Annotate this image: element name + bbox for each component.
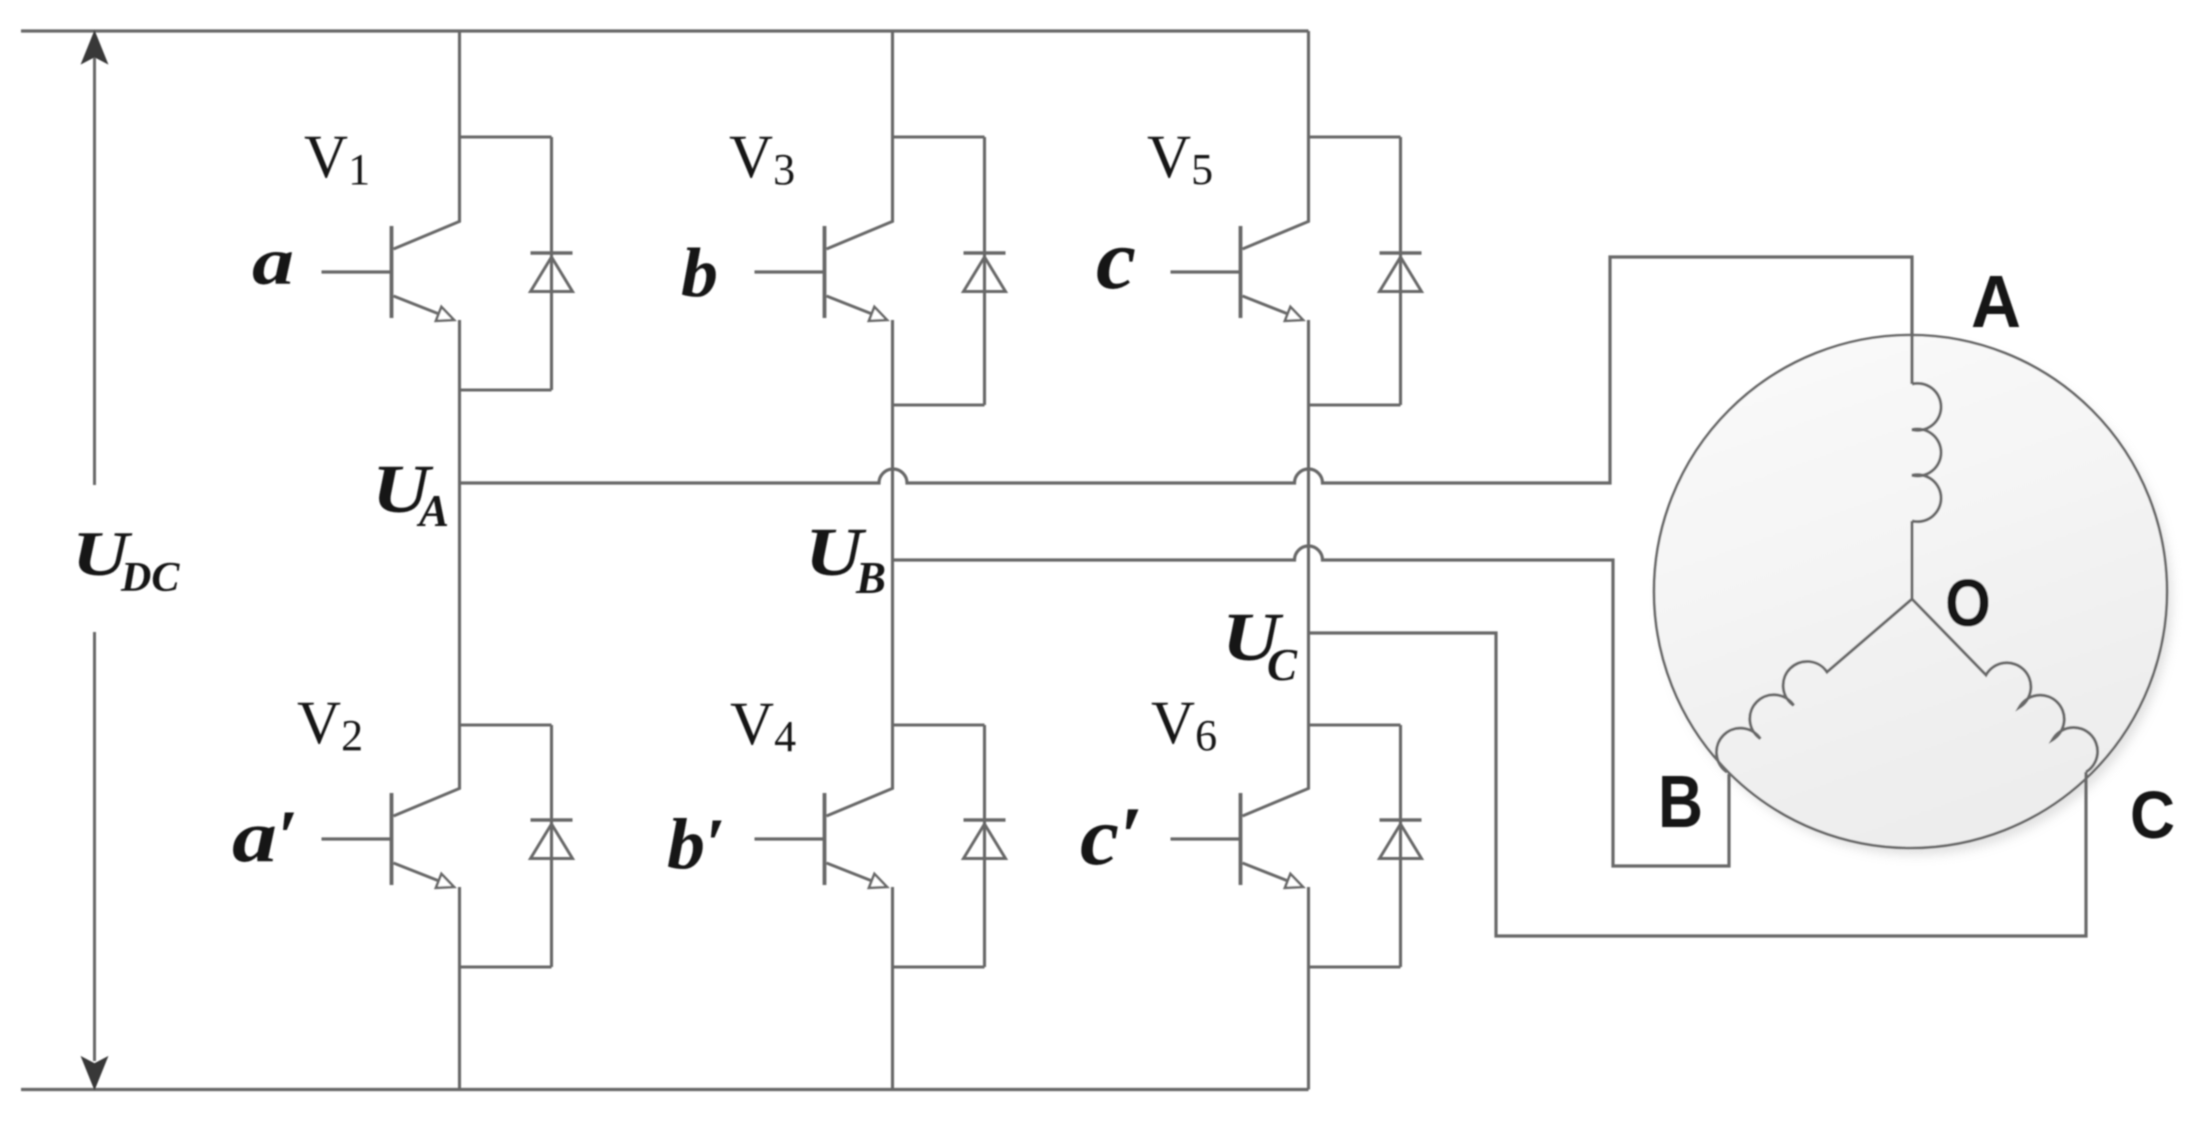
freewheeling diode of V5 — [1309, 137, 1422, 405]
freewheeling diode of V2 — [460, 725, 573, 967]
V6 emitter arrowhead — [1285, 874, 1303, 888]
wire leg C upper (DC+ to collector) — [1307, 31, 1310, 222]
svg-text:V3: V3 — [729, 124, 795, 194]
transistor V4 (IGBT) body — [755, 788, 894, 886]
svg-text:A: A — [416, 486, 449, 536]
transistor V1 (IGBT) body — [322, 221, 461, 319]
wire leg A middle (emitter to lower collector) — [458, 320, 461, 789]
transistor V6 (IGBT) body — [1171, 788, 1310, 886]
svg-text:V1: V1 — [304, 124, 370, 194]
wire net U_B (leg B midpoint to motor terminal B, hops over leg C) — [893, 546, 1730, 866]
svg-text:V2: V2 — [297, 690, 363, 760]
transistor V3 (IGBT) body — [755, 221, 894, 319]
wire leg A lower (emitter to DC-) — [458, 887, 461, 1090]
svg-text:a: a — [252, 223, 294, 299]
svg-text:V4: V4 — [730, 691, 796, 761]
wire leg C middle (emitter to lower collector) — [1307, 320, 1310, 789]
freewheeling diode of V3 — [893, 137, 1006, 405]
svg-text:b: b — [681, 235, 718, 312]
wire leg B lower (emitter to DC-) — [891, 887, 894, 1090]
V4 emitter arrowhead — [869, 874, 887, 888]
freewheeling diode of V6 — [1309, 725, 1422, 967]
svg-text:a′: a′ — [232, 796, 298, 878]
motor winding A (coil) — [1912, 383, 1941, 599]
transistor V2 (IGBT) body — [322, 788, 461, 886]
freewheeling diode of V1 — [460, 137, 573, 390]
svg-text:c′: c′ — [1080, 790, 1143, 883]
svg-text:DC: DC — [120, 555, 180, 601]
svg-text:V5: V5 — [1147, 124, 1213, 194]
svg-text:B: B — [1658, 760, 1703, 843]
wire net U_A (leg A midpoint to motor terminal A, hops over legs B and C) — [460, 257, 1913, 483]
svg-text:C: C — [2130, 778, 2175, 853]
svg-text:C: C — [1267, 640, 1298, 690]
svg-text:A: A — [1971, 260, 2021, 343]
motor winding B (coil) — [1716, 599, 1912, 772]
wire positive DC rail (top) — [21, 29, 1309, 32]
wire negative DC rail (bottom) — [21, 1088, 1309, 1091]
freewheeling diode of V4 — [893, 725, 1006, 967]
wire net U_C (leg C midpoint to motor terminal C) — [1309, 633, 2087, 936]
U_DC measurement arrow (double-headed) — [82, 32, 107, 1089]
svg-text:c: c — [1096, 211, 1136, 307]
svg-text:b′: b′ — [667, 804, 725, 884]
svg-text:B: B — [855, 553, 886, 603]
V3 emitter arrowhead — [869, 307, 887, 321]
wire leg B upper (DC+ to collector) — [891, 31, 894, 222]
svg-text:V6: V6 — [1151, 690, 1217, 760]
V2 emitter arrowhead — [436, 874, 454, 888]
wire leg B middle (emitter to lower collector) — [891, 320, 894, 789]
motor M stator body (circle) — [1654, 335, 2172, 855]
wire leg A upper (DC+ to collector) — [458, 31, 461, 222]
V1 emitter arrowhead — [436, 307, 454, 321]
transistor V5 (IGBT) body — [1171, 221, 1310, 319]
V5 emitter arrowhead — [1285, 307, 1303, 321]
wire leg C lower (emitter to DC-) — [1307, 887, 1310, 1090]
svg-text:O: O — [1945, 566, 1991, 641]
motor winding C (coil) — [1912, 599, 2098, 772]
